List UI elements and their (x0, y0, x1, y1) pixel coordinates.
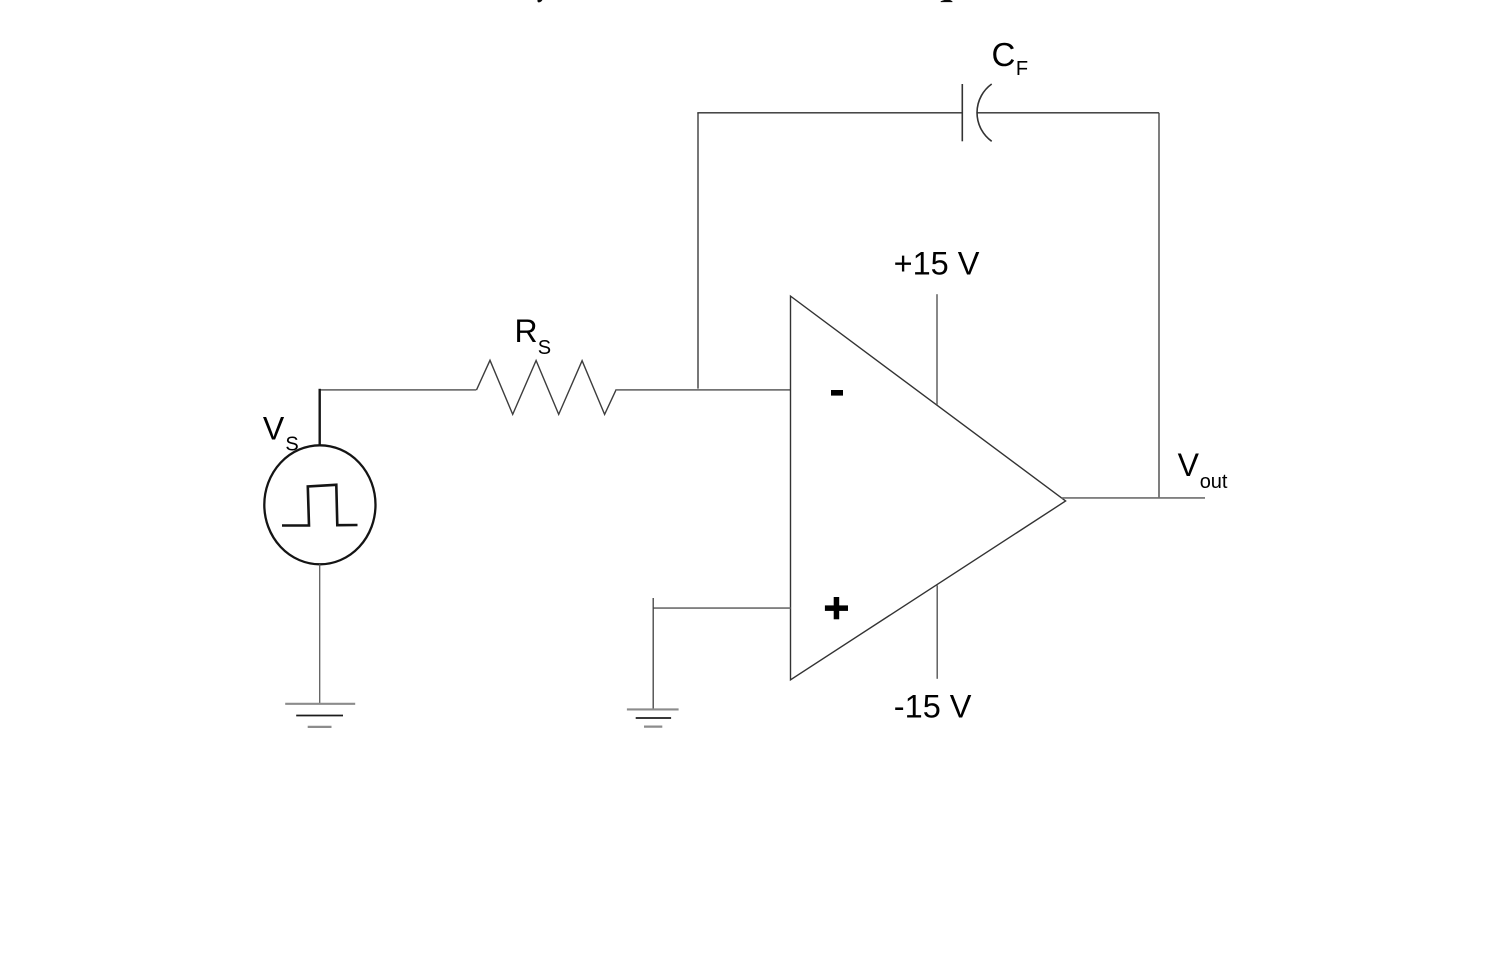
resistor R_S label (515, 313, 552, 359)
wire: input node to resistor R_S (320, 389, 477, 391)
op-amp U1 triangle (791, 296, 1066, 680)
svg-text:out: out (1200, 471, 1228, 493)
wire: op-amp output (1062, 497, 1206, 499)
wire: feedback left vertical (inverting node up to cap) (697, 113, 699, 389)
ground (below V_S) (285, 704, 355, 727)
title fragment (serif foot, clipped) (941, 0, 953, 2)
wire: non-inverting input horizontal (653, 607, 790, 609)
svg-text:+15 V: +15 V (894, 245, 980, 281)
resistor R_S (477, 360, 617, 414)
svg-text:V: V (263, 411, 285, 447)
wire: non-inverting ground stub vertical (652, 598, 654, 709)
wire: feedback top horizontal, cap right side (977, 112, 1159, 114)
wire: V_S bottom lead (319, 564, 321, 704)
wire: -15 V supply lead (936, 585, 938, 679)
inverting input marker (-) (831, 390, 843, 396)
svg-text:S: S (538, 337, 551, 359)
svg-text:R: R (515, 313, 538, 349)
non-inverting input marker (+) (825, 597, 848, 619)
wire: V_S top lead (319, 389, 321, 446)
voltage source V_S label (263, 411, 299, 456)
svg-text:V: V (1178, 447, 1200, 483)
ground (below non-inverting input) (627, 709, 679, 726)
svg-text:-15 V: -15 V (894, 689, 972, 725)
wire: feedback right vertical (down to output) (1158, 113, 1160, 498)
wire: feedback top horizontal, cap left side (697, 112, 962, 114)
wire: resistor to op-amp inverting input (616, 389, 791, 391)
svg-text:C: C (992, 36, 1016, 73)
capacitor C_F plates (962, 84, 991, 141)
voltage source V_S (pulse source) (264, 445, 375, 564)
svg-text:F: F (1016, 58, 1028, 80)
wire: +15 V supply lead (936, 294, 938, 405)
capacitor C_F label (992, 36, 1029, 80)
output label V_out (1178, 447, 1228, 493)
title fragment (comma descender, clipped) (537, 0, 542, 2)
